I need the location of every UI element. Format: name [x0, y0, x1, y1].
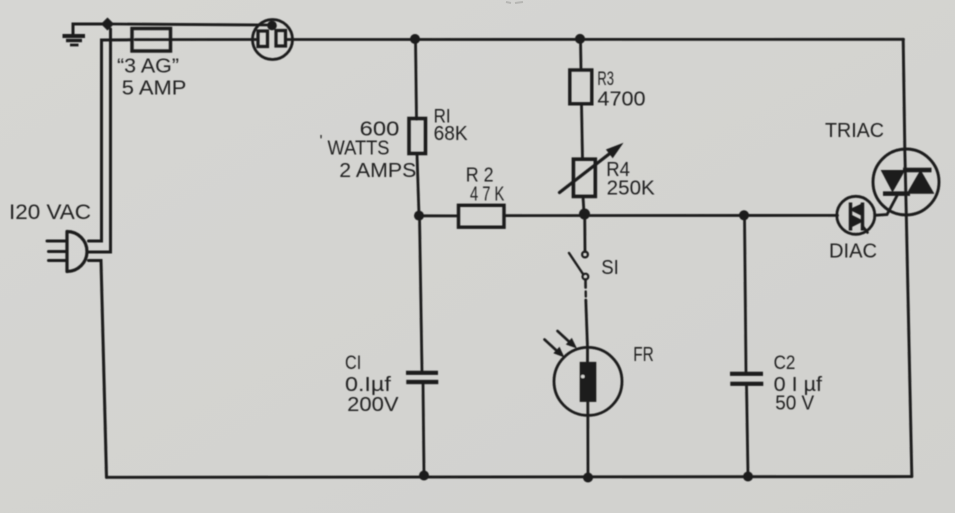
wire: junction down to S1 — [583, 214, 586, 252]
svg-text:I20 VAC: I20 VAC — [9, 201, 91, 224]
potentiometer R4 250K — [573, 159, 595, 196]
light arrows at FR — [545, 340, 558, 352]
fuse F1 "3AG 5AMP" — [132, 29, 171, 52]
svg-text:0.Iµf: 0.Iµf — [345, 374, 391, 396]
wire: S1 to FR (partly faint) — [584, 280, 587, 288]
node: R3 top junction — [575, 34, 585, 44]
svg-text:TRIAC: TRIAC — [825, 120, 884, 142]
node: R1 top junction — [410, 34, 420, 44]
svg-text:WATTS: WATTS — [328, 138, 390, 160]
svg-text:CI: CI — [345, 353, 361, 374]
triac Q1 — [873, 149, 939, 215]
resistor R1 68K — [409, 119, 426, 154]
svg-text:200V: 200V — [347, 394, 399, 416]
svg-text:“3 AG”: “3 AG” — [117, 56, 179, 78]
svg-text:R3: R3 — [597, 69, 614, 90]
resistor R2 47K — [459, 205, 505, 227]
node: C2 bottom junction — [743, 472, 753, 482]
wire: through triac — [905, 149, 907, 215]
wire: C2 to bottom rail — [747, 384, 749, 476]
photocell FR — [554, 347, 622, 415]
wire: R4 to gate-line junction — [583, 197, 584, 214]
wire: plug bottom terminal down to bottom rail — [89, 261, 107, 478]
wire: R3 to R4 — [582, 104, 583, 159]
node: R4/S1 junction — [579, 209, 590, 220]
capacitor C1 plates — [406, 373, 438, 382]
wire: bus to R1 — [416, 39, 417, 119]
svg-text:DIAC: DIAC — [829, 240, 877, 262]
svg-text:250K: 250K — [607, 177, 656, 199]
wire: R1 to R2 junction — [417, 154, 419, 216]
svg-text:': ' — [320, 133, 323, 150]
node: R1/R2/C1 junction — [414, 211, 424, 221]
svg-text:5 AMP: 5 AMP — [122, 78, 187, 100]
wire: diac to triac gate — [875, 194, 898, 216]
svg-text:68K: 68K — [434, 123, 469, 145]
svg-text:SI: SI — [601, 257, 619, 279]
svg-text:2 AMPS: 2 AMPS — [339, 160, 416, 182]
wire: diamond to socket top — [113, 24, 268, 25]
plug 120VAC body — [67, 232, 87, 272]
wire: through fuse to socket — [135, 38, 258, 41]
svg-text:4700: 4700 — [597, 89, 645, 111]
wire: bus to R3 — [579, 39, 582, 70]
wire: right vertical from diamond down to plug middle terminal — [89, 29, 111, 252]
svg-text:C2: C2 — [774, 353, 796, 374]
wire: ground stub to diamond junction — [73, 24, 103, 34]
ground — [63, 36, 86, 45]
switch S1 — [582, 252, 588, 258]
socket (outlet) — [253, 20, 293, 60]
diac D1 — [837, 196, 875, 234]
wire: R2 left lead — [419, 214, 459, 217]
wire: R2 right to DIAC (gate line) — [504, 214, 838, 217]
capacitor C2 plates — [730, 374, 763, 384]
plug prongs — [47, 240, 67, 243]
wire: main top bus — [286, 38, 904, 41]
wire: triac down the right side to bottom rail — [906, 215, 912, 476]
wire: FR to bottom rail — [586, 402, 589, 478]
node: C2 top junction — [739, 210, 749, 220]
node: C1 bottom junction — [419, 471, 429, 481]
svg-text:4 7 K: 4 7 K — [470, 184, 505, 206]
wire: top bus right corner down to triac — [903, 39, 905, 149]
wire: left vertical, plug top terminal up to fused line — [89, 40, 133, 241]
svg-text:FR: FR — [633, 344, 654, 366]
resistor R3 4700 — [570, 70, 592, 104]
wire: bottom rail — [107, 475, 912, 479]
wire: C1 to bottom rail — [423, 382, 424, 475]
wire: junction down to C2 — [745, 216, 747, 374]
node: FR bottom junction — [583, 473, 593, 483]
node: diamond junction (neutral) — [101, 18, 114, 31]
wire: junction down to C1 — [420, 216, 423, 372]
svg-text:50 V: 50 V — [775, 393, 815, 415]
